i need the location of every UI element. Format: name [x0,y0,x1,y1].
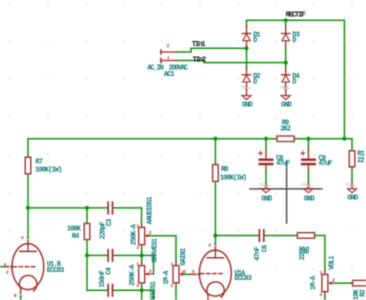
resistor R1 [349,151,355,167]
wire D1-D2 column [246,20,248,68]
svg-text:2K2: 2K2 [280,125,291,133]
svg-text:ECC83: ECC83 [234,275,251,283]
ground below C8 [259,183,272,204]
svg-text:1M-A: 1M-A [310,275,318,290]
junction TIn1 bridge left [244,46,248,50]
resistor R7 [25,157,31,174]
svg-text:100K(1W): 100K(1W) [35,167,62,175]
wire row4 bottom [87,290,153,300]
svg-text:R2: R2 [360,289,366,296]
svg-text:GND: GND [281,102,292,110]
potentiometer treble 250K-A [136,223,152,255]
wire net TIn2 [177,61,286,63]
potentiometer gain 1M-A [171,261,187,289]
wire volume wiper to R2 [333,282,353,284]
wire anode node to C6 [215,235,258,237]
svg-text:GND: GND [261,196,272,204]
wire B+ rail left segment [28,138,277,140]
capacitor C9 [301,139,316,184]
svg-text:ECC83: ECC83 [47,267,64,275]
svg-text:250K-A: 250K-A [130,223,138,245]
junction C9 on rail [306,137,310,141]
resistor R5 [297,233,314,239]
wire RECTIF net top [247,20,345,138]
potentiometer volume 1M-A [319,270,335,298]
tube U1.B ECC83 [0,235,44,300]
ground below R1 [345,181,358,203]
diode D4 [282,68,290,89]
junction row3 left [85,253,89,257]
origin cross marker [250,162,322,223]
svg-text:C3: C3 [106,219,114,226]
junction R8 top on rail [213,137,217,141]
svg-text:AAUDIOS1: AAUDIOS1 [147,196,155,224]
wire D3-D4 column [285,20,287,68]
junction row2 left [26,206,30,210]
diode D3 [282,26,290,46]
svg-text:VOL1: VOL1 [328,256,336,270]
svg-text:GND: GND [242,102,253,110]
junction rectifier output on rail [342,137,346,141]
junction TIn2 bridge right [284,61,288,65]
connector AC1 pin 1 [160,58,176,62]
svg-text:22: 22 [357,157,364,165]
junction U1A anode node [213,233,217,237]
svg-text:GRAVES1: GRAVES1 [152,238,160,262]
resistor R4 [84,224,90,240]
potentiometer bass 250K-A [136,255,153,290]
svg-text:100K(1W): 100K(1W) [220,174,247,182]
junction RECTIF at D3 [284,18,288,22]
svg-text:R8: R8 [221,166,228,174]
capacitor C5 [108,285,112,296]
resistor R2 [351,280,366,286]
wire pot1 wiper to gain pot [150,236,176,263]
svg-text:TIn2: TIn2 [193,57,206,65]
tube U1A ECC83 [181,236,231,300]
wire row2 [28,208,142,225]
capacitor C6 [259,230,263,241]
svg-text:GAIN1: GAIN1 [180,248,188,266]
svg-text:AC1: AC1 [164,71,175,79]
ground below D2 [241,86,253,110]
svg-text:250K-A: 250K-A [129,264,137,286]
wire R7 drop from rail [27,139,29,208]
capacitor C8 [258,139,273,184]
svg-text:47uF: 47uF [318,160,332,168]
wire volume pot bottom [324,295,326,300]
svg-text:GND: GND [304,196,315,204]
ground below D4 [280,86,292,110]
junction pot1 bottom node [140,253,144,257]
capacitor C4 [108,250,112,261]
wire R8 drop from rail [214,139,216,236]
resistor R8 [213,165,219,182]
svg-text:R7: R7 [35,159,42,167]
diode D2 [242,68,250,89]
svg-text:TIn1: TIn1 [192,41,206,49]
wire B+ rail right segment [294,139,352,151]
resistor R9 [277,136,294,142]
svg-text:1M-A: 1M-A [163,270,171,285]
svg-text:RECTIF: RECTIF [286,12,306,20]
wire R1 to ground [351,167,353,181]
junction R4 top [85,206,89,210]
svg-text:C6: C6 [261,245,269,252]
svg-text:R4: R4 [72,233,79,241]
connector AC1 pin 2 [160,50,176,54]
wire C6 to R5 [265,235,298,237]
svg-text:R5: R5 [304,246,312,253]
junction C8 on rail [264,137,268,141]
wire net TIn1 [177,48,247,52]
junction row4 pot2 bottom [140,288,144,292]
svg-text:C4: C4 [105,267,113,274]
wire row3 [87,255,154,274]
wire C4-C5 branch down [86,255,88,290]
diode D1 [242,26,250,46]
svg-text:47uF: 47uF [276,160,290,168]
wire U1.B anode from row2 [27,208,29,237]
ground below C9 [302,183,315,204]
wire gain wiper to U1A grid [184,273,191,275]
capacitor C3 [108,202,112,213]
wire R4 branch [86,208,88,256]
wire R5 to volume pot [315,236,325,272]
wire gain pot bottom [175,286,177,300]
svg-text:GND: GND [347,195,358,203]
